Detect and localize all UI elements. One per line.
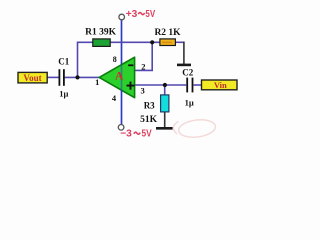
svg-text:C2: C2 [182, 68, 193, 78]
svg-text:3: 3 [140, 86, 144, 96]
svg-text:A: A [115, 71, 124, 83]
svg-text:+3: +3 [126, 9, 138, 20]
svg-text:5V: 5V [142, 129, 152, 140]
svg-text:Vin: Vin [214, 80, 227, 90]
svg-text:8: 8 [113, 55, 117, 64]
svg-text:2: 2 [141, 62, 145, 72]
svg-text:1µ: 1µ [185, 98, 194, 108]
svg-text:1µ: 1µ [59, 88, 68, 98]
svg-text:−3: −3 [120, 129, 132, 140]
svg-text:R3: R3 [144, 101, 155, 111]
svg-text:R1 39K: R1 39K [85, 27, 116, 37]
svg-text:C1: C1 [58, 56, 69, 66]
svg-text:Vout: Vout [23, 73, 41, 83]
svg-text:1: 1 [95, 77, 99, 87]
svg-text:R2 1K: R2 1K [154, 28, 181, 38]
svg-text:5V: 5V [145, 9, 155, 20]
svg-text:51K: 51K [140, 115, 158, 125]
